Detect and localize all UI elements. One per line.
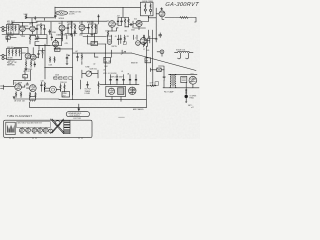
svg-text:MIC .02 1M: MIC .02 1M	[7, 62, 17, 64]
wire long vertical	[152, 30, 154, 71]
transformer T1 secondary winding	[175, 75, 176, 88]
capacitor C21	[123, 78, 125, 81]
svg-text:.02 470K: .02 470K	[106, 36, 113, 38]
svg-text:COIL SUPPLY: COIL SUPPLY	[69, 115, 80, 117]
svg-text:470K .01 1M: 470K .01 1M	[103, 73, 113, 75]
label box V5	[23, 75, 28, 78]
wire V8 top	[56, 37, 106, 41]
wire mid vertical x72.5	[72, 35, 74, 100]
component near x37	[35, 38, 37, 41]
tube V5	[109, 21, 116, 28]
small dash mark	[119, 116, 125, 118]
capacitor C5	[38, 51, 40, 58]
ground stage1	[70, 34, 72, 37]
node blob output	[185, 95, 188, 98]
tube socket 2	[25, 127, 31, 133]
svg-text:SHT 1: SHT 1	[188, 105, 192, 107]
mid verticals upper	[108, 35, 112, 40]
wire right mid	[88, 33, 95, 44]
svg-text:.02 10MF: .02 10MF	[14, 83, 22, 85]
resistor R25 vertical	[20, 92, 21, 98]
wire	[36, 51, 45, 59]
SECTION-CH2	[51, 7, 141, 34]
resistor R13 vertical	[30, 60, 31, 67]
capacitor C16	[87, 82, 89, 88]
tube V14 small	[136, 41, 141, 46]
resistor R11	[42, 48, 43, 55]
inductor L1 voice coil	[175, 52, 194, 53]
svg-text:MIC INST: MIC INST	[7, 21, 15, 23]
tube V8	[53, 41, 59, 47]
resistor R24 vertical	[15, 92, 16, 98]
relay box K1	[91, 42, 98, 46]
svg-text:DEPTH: DEPTH	[112, 46, 117, 48]
wire y38.4	[36, 35, 47, 45]
SECTION-CH1	[0, 35, 50, 79]
svg-text:8 OHM: 8 OHM	[85, 93, 91, 95]
wire	[62, 21, 68, 35]
svg-text:.05: .05	[115, 36, 117, 38]
potentiometer VR1 arrow	[121, 51, 126, 54]
wire	[133, 16, 149, 30]
svg-text:10 CPS: 10 CPS	[69, 14, 76, 16]
SECTION-POWER	[30, 30, 164, 107]
svg-text:220K 1M: 220K 1M	[60, 82, 67, 84]
terminal box	[181, 76, 187, 82]
wire	[80, 21, 97, 34]
capacitor C25	[77, 53, 79, 61]
capacitor C23	[117, 35, 119, 45]
node cross	[155, 38, 157, 40]
svg-text:6EU7 6EU7 6C4 6EU7 6V6 5Y3: 6EU7 6EU7 6C4 6EU7 6V6 5Y3	[18, 123, 42, 125]
capacitor C19	[110, 78, 112, 81]
tone caps row	[54, 77, 72, 80]
capacitor C1	[36, 25, 38, 34]
wire	[163, 80, 199, 87]
svg-text:TREMOLO OSC: TREMOLO OSC	[69, 12, 82, 14]
wire	[118, 7, 129, 27]
wire	[82, 70, 98, 78]
tube socket 5	[42, 127, 48, 133]
svg-text:470K 1M: 470K 1M	[87, 22, 94, 24]
svg-text:FT: FT	[104, 59, 106, 61]
jack J4 reverb	[1, 85, 15, 90]
tube V3	[59, 25, 65, 31]
svg-text:25MF: 25MF	[63, 93, 67, 95]
svg-text:TUBE PLACEMENT: TUBE PLACEMENT	[7, 115, 32, 118]
svg-text:NORM TREM: NORM TREM	[142, 1, 153, 3]
svg-text:6C4: 6C4	[134, 19, 137, 21]
wire V5 cathode	[112, 28, 117, 31]
transformer lamination shape	[7, 125, 15, 133]
input jack J1	[2, 26, 4, 28]
switch S1b	[150, 3, 151, 8]
switch box power	[155, 82, 159, 85]
resistor R23 vertical	[98, 82, 99, 90]
svg-text:INST 68K: INST 68K	[7, 64, 15, 66]
SECTION-RIGHT	[14, 33, 146, 100]
wire	[156, 14, 180, 19]
transformer T1 core	[172, 74, 173, 86]
svg-text:TO SPKR: TO SPKR	[190, 96, 198, 98]
wire	[51, 34, 67, 42]
wire caps bus	[100, 84, 139, 86]
wire	[186, 83, 193, 95]
wire below blob	[186, 98, 187, 102]
wire caps row verticals	[106, 44, 137, 85]
potentiometer VR2	[86, 71, 92, 77]
capacitor C6	[34, 62, 36, 68]
wire	[112, 50, 122, 57]
wire h y45.5	[35, 36, 62, 46]
resistor R1	[25, 16, 27, 19]
resistor R4	[15, 26, 16, 32]
tube V10 reverb	[29, 85, 36, 92]
resistor R21 vertical	[60, 84, 61, 91]
tube socket 4	[37, 127, 43, 133]
tube socket 6	[48, 129, 53, 133]
wire	[56, 80, 72, 95]
wire power top	[169, 73, 198, 75]
wire right vertical	[149, 8, 157, 42]
wire ch1 top	[12, 22, 37, 34]
transformer T1 primary winding	[170, 75, 171, 88]
svg-text:.02: .02	[93, 64, 95, 66]
footswitch box SW1	[141, 2, 154, 16]
capacitor C22	[129, 78, 131, 81]
wire	[45, 62, 73, 68]
wire tremolo bus	[55, 7, 141, 15]
wire right stub	[98, 15, 100, 25]
svg-text:1M 68K: 1M 68K	[7, 57, 14, 59]
twisted pair shield	[61, 30, 63, 36]
resistor R22 vertical	[64, 84, 65, 91]
tube V1B	[30, 26, 36, 32]
tube V7	[159, 11, 165, 17]
tube V12 in box	[108, 88, 114, 94]
label box mid	[62, 92, 70, 98]
right cluster dense wires	[145, 35, 150, 47]
chassis feet	[10, 138, 82, 139]
wire	[4, 28, 6, 31]
capacitor C22b	[135, 78, 137, 81]
wire ch1 bottom bus	[2, 34, 47, 36]
tube V4	[79, 25, 85, 31]
box small mid	[123, 42, 126, 45]
svg-text:5Y3: 5Y3	[191, 74, 194, 76]
wire	[112, 97, 121, 102]
svg-text:68K 68K: 68K 68K	[7, 23, 14, 25]
svg-text:SW: SW	[104, 61, 107, 63]
wire	[195, 18, 197, 23]
capacitor C18	[163, 77, 165, 81]
tube V2B	[30, 54, 36, 60]
jack J3	[50, 86, 57, 93]
svg-text:FOOT SW: FOOT SW	[74, 118, 82, 120]
resistor R20 horizontal	[180, 17, 196, 19]
ground ch2	[25, 68, 27, 71]
tube socket 1	[19, 127, 25, 133]
resistor R14 vertical	[71, 24, 72, 34]
fuse F1 box	[157, 68, 161, 72]
scan mottle	[0, 0, 200, 139]
wire osc drop	[50, 22, 52, 34]
ground rail	[14, 98, 146, 101]
wire tone bus	[73, 52, 132, 54]
wire diagonal speaker feed	[132, 53, 197, 71]
resistor R16 vertical	[91, 24, 92, 34]
tube socket 3	[31, 127, 37, 133]
node A	[55, 7, 56, 8]
resistor R30 vertical	[124, 35, 125, 42]
svg-text:of 2: of 2	[191, 107, 194, 109]
SECTION-REVERB	[145, 46, 199, 107]
tube V13 small	[107, 40, 112, 45]
svg-text:.02 220K: .02 220K	[67, 22, 74, 24]
wire vertical bus x45	[44, 44, 46, 79]
svg-text:68K 68K: 68K 68K	[7, 47, 14, 49]
resistor R8	[12, 50, 13, 57]
wire	[98, 43, 107, 45]
svg-text:OUTPUT: OUTPUT	[85, 89, 92, 91]
capacitor C20	[116, 78, 118, 81]
ground marks small	[13, 97, 15, 99]
tube V2A	[25, 53, 31, 59]
SECTION-STAGES	[132, 1, 200, 71]
capacitor C10	[117, 18, 119, 26]
capacitor C7	[54, 15, 56, 18]
resistor R26 vertical	[29, 92, 30, 98]
resistor R28 vertical	[44, 82, 45, 90]
output transformer chassis	[64, 121, 70, 134]
SECTION-BOTTOM	[4, 104, 194, 139]
wire	[30, 41, 50, 49]
transformer T2 core in box	[118, 88, 124, 95]
svg-text:OT: OT	[143, 49, 145, 51]
svg-text:500K VOL: 500K VOL	[90, 69, 98, 71]
wire arrow to pill	[78, 104, 80, 111]
wire reverb verticals	[25, 70, 31, 80]
switch S1a	[145, 3, 146, 8]
power transformer box chassis	[6, 122, 15, 134]
resistor R31 vertical	[107, 31, 112, 36]
capacitor C15 electrolytic	[66, 54, 70, 62]
tube V9 reverb	[15, 84, 22, 91]
wire ch2	[14, 48, 33, 55]
capacitor C24 right cluster	[144, 43, 146, 46]
resistor R32 vertical	[81, 53, 82, 64]
capacitor C8	[67, 24, 69, 34]
wire block dividers	[10, 25, 14, 35]
capacitor C4	[37, 35, 40, 40]
resistor R33 vertical	[49, 57, 50, 63]
tube V6	[136, 20, 142, 26]
svg-text:REMOTE: REMOTE	[131, 63, 138, 65]
wire	[26, 14, 55, 23]
paper background	[0, 0, 200, 139]
SECTION-MID	[1, 70, 46, 103]
wire stage bus	[36, 20, 107, 22]
resistor R34 vertical	[54, 57, 55, 63]
capacitor C13	[159, 33, 162, 38]
capacitor C11	[121, 18, 123, 26]
svg-text:6V6: 6V6	[147, 50, 150, 52]
wire between channels	[10, 35, 35, 37]
resistor R7	[8, 50, 9, 57]
grid resistor block ch2	[7, 49, 22, 60]
ground stage2	[91, 34, 93, 37]
switch box mid	[104, 57, 111, 63]
small box between channels	[6, 36, 10, 39]
tube V1A	[20, 26, 26, 32]
svg-text:VOICE COIL: VOICE COIL	[176, 50, 185, 52]
svg-text:.02 2.7K: .02 2.7K	[23, 71, 30, 73]
svg-text:.01: .01	[121, 71, 123, 73]
capacitor C26	[49, 30, 51, 35]
switch box right	[145, 58, 151, 63]
wire hook1	[178, 53, 181, 59]
tube V6A output	[140, 38, 147, 45]
svg-text:.02: .02	[103, 70, 105, 72]
SECTION-TREM	[36, 7, 149, 34]
chassis outline	[4, 120, 92, 137]
svg-text:SPEED: SPEED	[59, 18, 65, 20]
input jack J2	[2, 54, 4, 56]
capacitor column right	[41, 82, 43, 92]
svg-text:6C4: 6C4	[79, 23, 82, 25]
svg-text:SW: SW	[145, 61, 148, 63]
chassis panel rect	[17, 122, 50, 128]
capacitor C27	[34, 16, 36, 20]
ground box legs	[30, 97, 36, 101]
capacitor C17	[26, 83, 29, 86]
wire hook2	[186, 53, 189, 59]
svg-text:.047: .047	[75, 51, 78, 53]
svg-text:6EU7: 6EU7	[29, 24, 33, 26]
wire right cluster	[144, 30, 158, 47]
svg-text:GA-300RVT: GA-300RVT	[165, 2, 200, 8]
svg-text:1M 470K 22K: 1M 470K 22K	[14, 101, 26, 103]
wire	[65, 21, 77, 34]
resistor R9	[15, 50, 16, 57]
capacitor C3 between channels	[7, 36, 9, 42]
resistor R5	[40, 23, 41, 31]
speaker frame lines	[51, 119, 65, 134]
wire	[134, 35, 138, 40]
wire	[21, 85, 29, 88]
grid resistor block ch1	[7, 25, 20, 35]
capacitor C9	[88, 24, 90, 34]
wire	[95, 53, 99, 57]
wire	[14, 80, 31, 84]
resistor R15 vertical	[74, 24, 75, 34]
wire	[82, 21, 88, 34]
resistor R17 vertical	[95, 24, 96, 34]
big box bottom edge	[30, 102, 147, 107]
voltage box 350V	[55, 48, 61, 51]
speaker hub	[55, 121, 60, 126]
wire	[35, 25, 44, 35]
svg-text:20MF 20MF 40MF: 20MF 20MF 40MF	[110, 77, 123, 79]
wire small bits mid	[120, 35, 122, 44]
resistor R27 vertical	[35, 92, 36, 98]
capacitor C2	[44, 25, 46, 35]
wire	[107, 21, 118, 31]
rectifier tube V11	[189, 76, 197, 84]
wire right col	[74, 30, 76, 36]
svg-text:.02: .02	[36, 22, 38, 24]
resistor R3	[11, 26, 12, 32]
resistor R18 vertical	[124, 18, 125, 28]
plus mark	[161, 8, 163, 10]
svg-text:350: 350	[55, 50, 58, 52]
resistor R10	[19, 50, 20, 57]
svg-text:1500: 1500	[79, 34, 83, 36]
pill label speaker	[66, 112, 89, 117]
resistor R29 small	[150, 85, 156, 86]
tremolo oscillator E1	[56, 11, 68, 15]
resistor R2	[8, 26, 9, 32]
wire	[151, 66, 165, 76]
resistor R19 vertical	[128, 18, 129, 28]
vibrato unit box	[106, 86, 126, 96]
pilot lamp P1	[160, 50, 164, 54]
wire power left	[152, 71, 154, 86]
wire B+	[54, 47, 73, 49]
svg-text:V5: V5	[23, 76, 25, 78]
capacitor C14	[51, 35, 53, 41]
wire power inlet	[147, 46, 150, 107]
resistor R12 vertical	[25, 59, 26, 67]
motor M1 circle	[129, 87, 136, 94]
wire	[4, 56, 6, 59]
resistor R6	[29, 35, 30, 41]
capacitor C12	[129, 24, 133, 26]
svg-text:6EU7: 6EU7	[59, 23, 63, 25]
svg-text:.1: .1	[135, 38, 136, 40]
wire	[81, 80, 99, 94]
